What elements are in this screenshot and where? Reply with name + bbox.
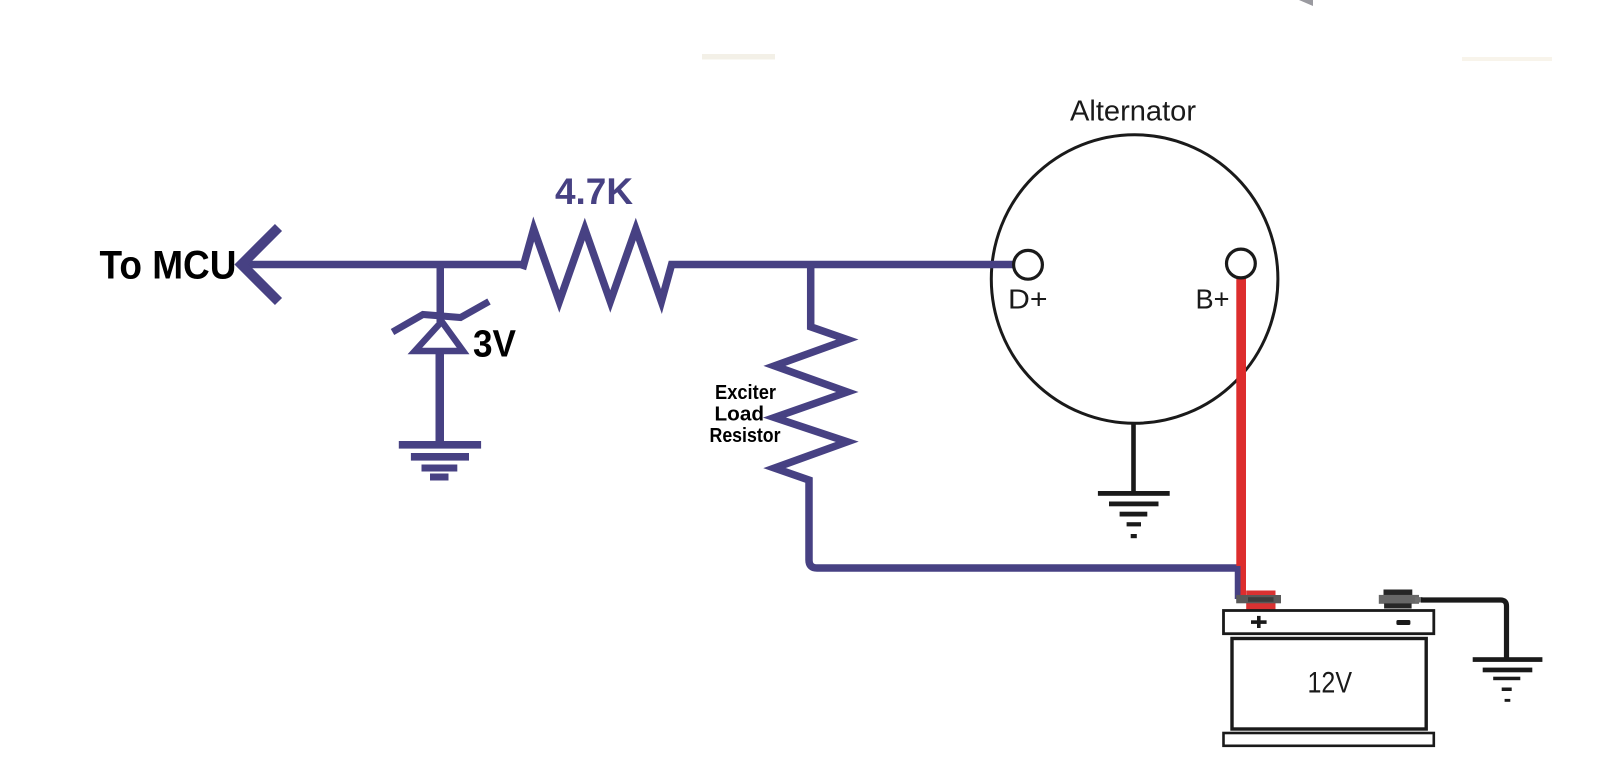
arrow head to MCU (242, 228, 279, 302)
alternator body circle (991, 135, 1278, 424)
wire: exciter branch drop, exciter load resistor zigzag, bottom run to battery (775, 265, 1239, 600)
battery negative terminal bottom cap (1384, 603, 1412, 608)
ground (zener) bar 2 (411, 453, 469, 461)
red wire B+ to battery positive (upper full width) (1236, 276, 1246, 566)
ground (zener) bar 1 (399, 441, 481, 449)
ground (alternator) bar 3 (1120, 512, 1148, 517)
svg-text:4.7K: 4.7K (555, 171, 633, 212)
zener diode D1 cathode bar with bent wings (393, 302, 490, 333)
svg-text:Resistor: Resistor (710, 425, 781, 447)
ground (battery) bar 3 (1493, 677, 1520, 681)
ground (zener) bar 3 (422, 465, 458, 472)
smudge artifact top center (702, 54, 775, 60)
battery base (1224, 733, 1434, 746)
svg-text:3V: 3V (473, 324, 517, 366)
battery minus sign (1396, 620, 1410, 625)
battery positive terminal red clamp (1246, 591, 1275, 610)
ground (alternator) bar 2 (1109, 502, 1159, 507)
ground (alternator) bar 5 (1131, 534, 1137, 538)
battery positive terminal dark inner (1248, 597, 1274, 602)
ground (alternator) bar 4 (1127, 522, 1141, 526)
svg-text:B+: B+ (1196, 284, 1230, 315)
svg-text:D+: D+ (1008, 284, 1048, 315)
smudge artifact top right (1462, 57, 1552, 61)
svg-text:To MCU: To MCU (100, 244, 237, 288)
alternator terminal D+ (1014, 250, 1043, 279)
ground (battery) bar 5 (1505, 699, 1511, 702)
ground (battery) bar 1 (1473, 657, 1543, 662)
battery lid (1224, 611, 1434, 634)
wire: alternator case to ground (1131, 422, 1136, 492)
battery negative terminal gray bar (1379, 595, 1419, 604)
zener diode D1 anode triangle (415, 322, 463, 352)
artifact gray triangle top edge (1299, 0, 1313, 6)
svg-text:Alternator: Alternator (1070, 96, 1196, 128)
battery plus sign horizontal (1251, 620, 1267, 624)
svg-text:Exciter: Exciter (715, 382, 776, 404)
wire: battery negative to ground (1421, 600, 1507, 658)
red wire lower segment right of purple (1240, 566, 1246, 597)
svg-text:Load: Load (715, 404, 765, 426)
battery negative terminal top cap (1384, 590, 1413, 597)
battery negative terminal nub (1415, 597, 1422, 602)
purple vertical strip over red at battery positive (1235, 566, 1241, 599)
battery positive terminal gray bar (1236, 595, 1281, 603)
battery plus sign vertical (1257, 616, 1261, 628)
wire: vertical from node to zener cathode (437, 264, 445, 322)
wire: zener anode to ground (436, 351, 445, 445)
battery body (1232, 639, 1426, 730)
svg-text:12V: 12V (1308, 667, 1353, 700)
ground (alternator) bar 1 (1098, 491, 1170, 496)
ground (battery) bar 2 (1483, 668, 1533, 673)
wire: main horizontal net with 4.7K resistor zigzag (243, 229, 1014, 302)
ground (zener) bar 4 (430, 474, 449, 481)
alternator terminal B+ (1227, 249, 1256, 278)
ground (battery) bar 4 (1502, 688, 1512, 692)
